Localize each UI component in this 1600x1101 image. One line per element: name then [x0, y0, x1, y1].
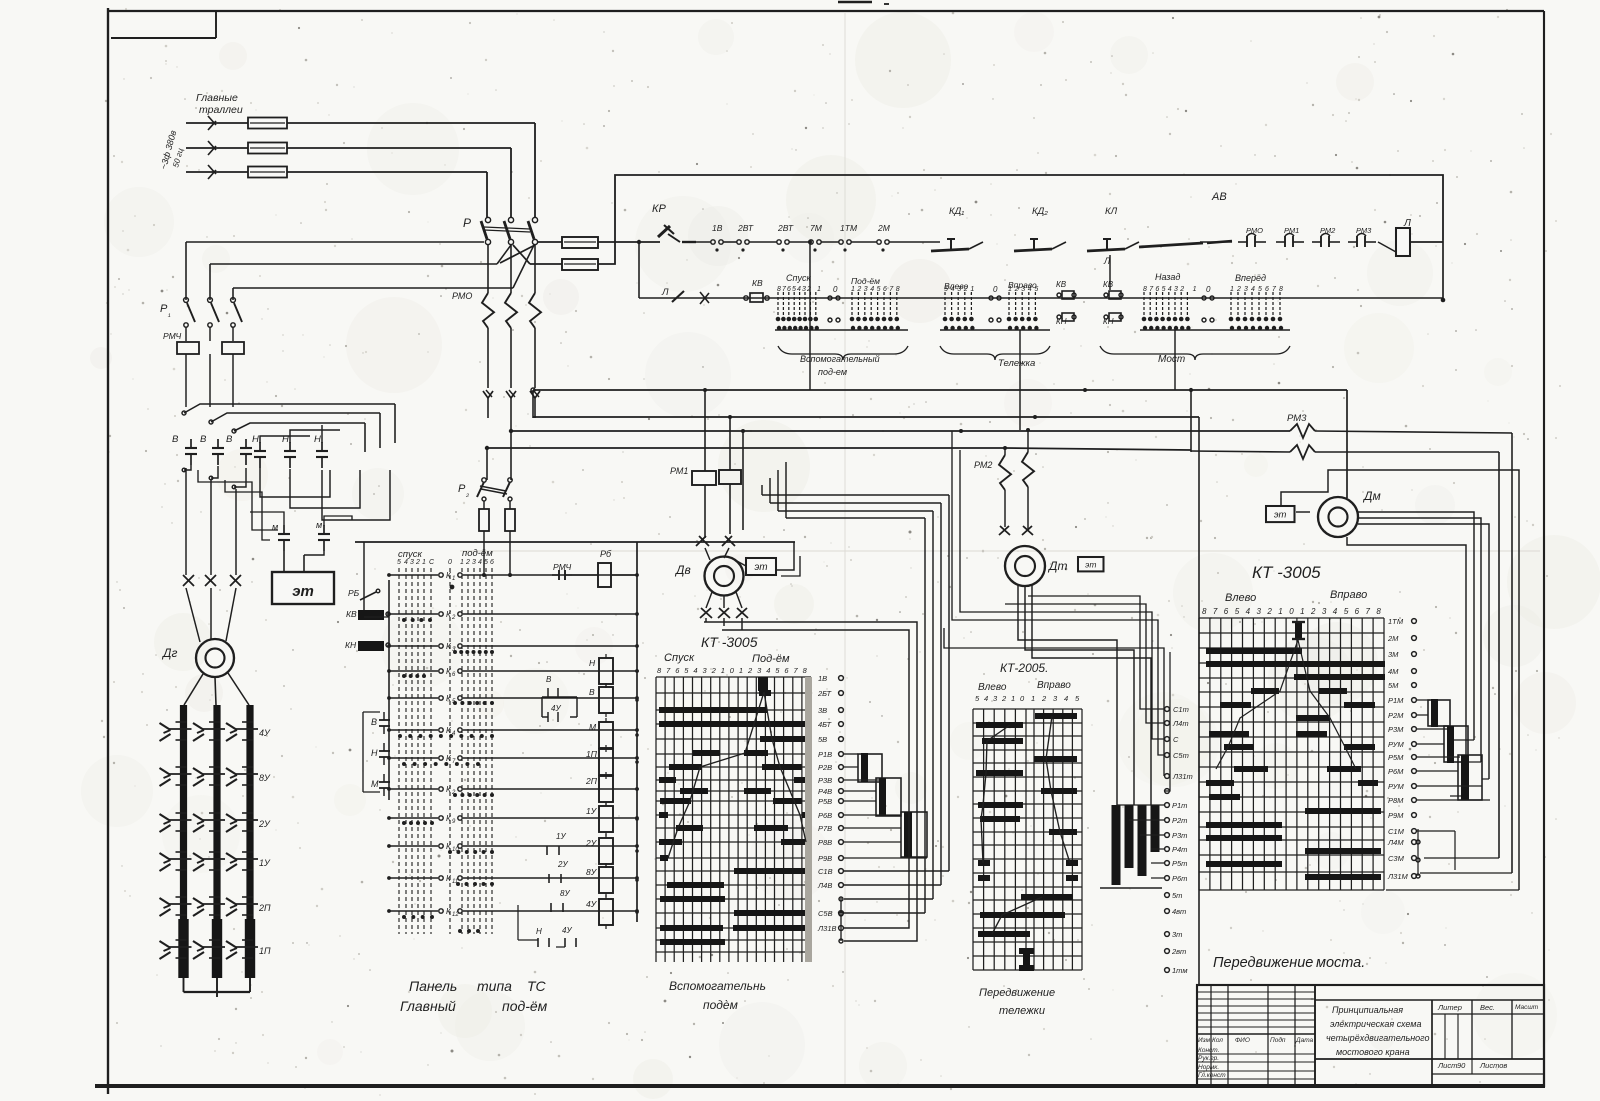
svg-text:под-ём: под-ём [502, 998, 548, 1014]
svg-text:эт: эт [292, 583, 314, 600]
svg-text:8: 8 [777, 286, 781, 293]
svg-text:6: 6 [787, 286, 791, 293]
svg-text:Р6В: Р6В [818, 811, 832, 820]
svg-text:0: 0 [1206, 285, 1211, 294]
svg-text:0: 0 [1289, 607, 1294, 616]
svg-text:Л: Л [661, 287, 669, 298]
svg-text:моста.: моста. [1316, 955, 1365, 971]
svg-text:типа: типа [477, 978, 512, 994]
svg-text:РМЧ: РМЧ [163, 331, 181, 341]
svg-text:Н: Н [589, 658, 596, 668]
svg-text:АВ: АВ [1211, 191, 1227, 203]
svg-text:1: 1 [739, 666, 743, 675]
svg-text:Р1В: Р1В [818, 750, 832, 759]
svg-text:Р4В: Р4В [818, 787, 832, 796]
svg-text:6: 6 [1155, 286, 1159, 293]
svg-text:6: 6 [1355, 607, 1360, 616]
svg-text:Р8М: Р8М [1388, 796, 1404, 805]
svg-text:3: 3 [1322, 607, 1327, 616]
svg-text:2ВТ: 2ВТ [777, 223, 794, 233]
svg-text:2У: 2У [557, 860, 568, 869]
svg-text:Вправо: Вправо [1330, 589, 1367, 601]
svg-text:4У: 4У [551, 704, 561, 713]
svg-text:2: 2 [1310, 607, 1316, 616]
svg-text:Конст.: Конст. [1198, 1047, 1220, 1054]
svg-text:1У: 1У [556, 832, 566, 841]
svg-text:Л31М: Л31М [1387, 872, 1408, 881]
svg-text:РМ2: РМ2 [974, 460, 992, 470]
svg-text:Мост: Мост [1158, 354, 1185, 365]
svg-text:1: 1 [1230, 286, 1234, 293]
svg-text:2: 2 [1179, 286, 1184, 293]
svg-text:4У: 4У [562, 926, 572, 935]
svg-text:Дв: Дв [674, 563, 691, 577]
svg-text:Вес.: Вес. [1480, 1003, 1495, 1012]
svg-text:Вправо: Вправо [1037, 680, 1071, 691]
svg-text:1: 1 [1193, 286, 1197, 293]
svg-text:В: В [200, 434, 207, 445]
svg-text:РМЧ: РМЧ [553, 562, 571, 572]
svg-text:7: 7 [1213, 607, 1218, 616]
svg-text:2БТ: 2БТ [817, 689, 833, 698]
svg-text:5: 5 [944, 286, 948, 293]
svg-text:4: 4 [1168, 286, 1172, 293]
svg-text:Р6т: Р6т [1172, 874, 1187, 883]
svg-text:КТ -3005: КТ -3005 [1252, 563, 1321, 582]
svg-text:Р3М: Р3М [1388, 725, 1404, 734]
svg-text:2: 2 [1014, 286, 1019, 293]
svg-text:Изм: Изм [1198, 1037, 1211, 1044]
svg-text:5: 5 [1235, 607, 1240, 616]
svg-text:1П: 1П [586, 749, 598, 759]
svg-text:5М: 5М [1388, 681, 1399, 690]
svg-text:Р1т: Р1т [1172, 801, 1187, 810]
svg-text:8У: 8У [259, 773, 271, 783]
svg-text:3: 3 [1174, 286, 1178, 293]
svg-text:3: 3 [410, 559, 414, 566]
svg-text:Передвижение: Передвижение [979, 987, 1055, 999]
svg-text:КТ-2005.: КТ-2005. [1000, 661, 1048, 675]
svg-text:Р9М: Р9М [1388, 811, 1404, 820]
svg-text:1: 1 [817, 286, 821, 293]
svg-text:Р6М: Р6М [1388, 767, 1404, 776]
svg-text:Р4т: Р4т [1172, 845, 1187, 854]
svg-text:6: 6 [490, 559, 494, 566]
svg-text:7М: 7М [810, 223, 823, 233]
svg-text:Дата: Дата [1295, 1037, 1314, 1044]
svg-text:Дг: Дг [161, 646, 177, 660]
svg-text:С1М: С1М [1388, 827, 1405, 836]
svg-text:3: 3 [957, 286, 961, 293]
svg-text:Передвижение: Передвижение [1213, 955, 1313, 971]
svg-text:Нормк.: Нормк. [1198, 1064, 1219, 1071]
svg-text:Н: Н [314, 434, 321, 445]
svg-text:2: 2 [1041, 694, 1047, 703]
svg-text:Р5В: Р5В [818, 797, 832, 806]
svg-text:2: 2 [856, 286, 861, 293]
svg-text:0: 0 [833, 285, 838, 294]
svg-text:₂: ₂ [465, 489, 469, 498]
svg-text:М: М [589, 722, 597, 732]
svg-text:В: В [589, 687, 595, 697]
svg-text:эт: эт [754, 562, 767, 573]
svg-text:КР: КР [652, 203, 666, 215]
svg-text:С5В: С5В [818, 909, 833, 918]
svg-text:2ВТ: 2ВТ [737, 223, 754, 233]
svg-text:90: 90 [1457, 1061, 1466, 1070]
svg-text:Вспомогательнь: Вспомогательнь [669, 979, 766, 993]
svg-text:1: 1 [422, 559, 426, 566]
svg-text:м: м [272, 522, 278, 532]
svg-text:5В: 5В [818, 735, 827, 744]
svg-text:3т: 3т [1172, 930, 1182, 939]
svg-text:1ТМ: 1ТМ [840, 223, 858, 233]
svg-text:1ТМ: 1ТМ [1388, 617, 1404, 626]
svg-text:Р5М: Р5М [1388, 753, 1404, 762]
svg-text:3: 3 [1257, 607, 1262, 616]
svg-text:Л31т: Л31т [1172, 772, 1193, 781]
svg-text:КН: КН [345, 640, 357, 650]
svg-text:электрическая схема: электрическая схема [1330, 1019, 1421, 1029]
svg-text:Н: Н [536, 927, 542, 936]
svg-text:В: В [172, 434, 179, 445]
svg-text:1: 1 [1300, 607, 1304, 616]
svg-text:Рук.гр.: Рук.гр. [1198, 1055, 1219, 1062]
svg-text:4: 4 [1064, 694, 1068, 703]
svg-text:Р: Р [458, 483, 466, 495]
svg-text:8У: 8У [560, 889, 570, 898]
svg-text:5: 5 [877, 286, 881, 293]
svg-text:2П: 2П [258, 903, 271, 913]
svg-text:3: 3 [1244, 286, 1248, 293]
svg-text:4У: 4У [259, 728, 271, 738]
svg-text:В: В [371, 717, 377, 727]
svg-text:ФИО: ФИО [1235, 1037, 1250, 1044]
svg-text:КВ: КВ [1103, 280, 1114, 289]
svg-text:четырёхдвигательного: четырёхдвигательного [1326, 1033, 1430, 1043]
svg-text:Под-ём: Под-ём [752, 653, 790, 665]
svg-text:Кол: Кол [1212, 1037, 1223, 1044]
svg-text:4: 4 [1333, 607, 1338, 616]
svg-text:8: 8 [1202, 607, 1207, 616]
svg-text:4: 4 [984, 694, 988, 703]
svg-text:Спуск: Спуск [664, 652, 695, 664]
svg-text:В: В [546, 675, 552, 684]
svg-text:2вт: 2вт [1171, 947, 1186, 956]
svg-text:1П: 1П [259, 946, 271, 956]
svg-text:КД₂: КД₂ [1032, 206, 1048, 217]
svg-text:Р1М: Р1М [1388, 696, 1404, 705]
svg-text:Главные: Главные [196, 92, 238, 104]
svg-text:Л4М: Л4М [1387, 838, 1404, 847]
svg-text:3М: 3М [1388, 650, 1399, 659]
svg-text:6: 6 [1265, 286, 1269, 293]
svg-text:С1В: С1В [818, 867, 833, 876]
svg-text:В: В [226, 434, 233, 445]
svg-text:2: 2 [711, 666, 717, 675]
svg-text:С: С [1173, 735, 1179, 744]
svg-text:КВ: КВ [1056, 280, 1067, 289]
svg-text:1: 1 [452, 576, 455, 582]
svg-text:2: 2 [465, 559, 470, 566]
svg-text:1: 1 [1278, 607, 1282, 616]
svg-text:1У: 1У [259, 858, 271, 868]
svg-text:КТ -3005: КТ -3005 [701, 634, 758, 650]
svg-text:1У: 1У [586, 806, 598, 816]
svg-text:М: М [371, 779, 379, 789]
svg-text:4: 4 [870, 286, 874, 293]
svg-text:4У: 4У [586, 899, 598, 909]
svg-text:м: м [316, 520, 322, 530]
svg-text:6: 6 [1224, 607, 1229, 616]
svg-text:КВ: КВ [752, 278, 763, 288]
svg-text:КД₁: КД₁ [949, 206, 964, 217]
svg-text:5: 5 [1162, 286, 1166, 293]
svg-text:Лист: Лист [1437, 1061, 1457, 1070]
svg-text:Р2т: Р2т [1172, 816, 1187, 825]
svg-text:Л4В: Л4В [817, 881, 832, 890]
svg-text:1: 1 [1011, 694, 1015, 703]
svg-text:3: 3 [802, 286, 806, 293]
svg-text:4вт: 4вт [1172, 907, 1186, 916]
svg-text:4: 4 [951, 286, 955, 293]
svg-text:5: 5 [1258, 286, 1262, 293]
svg-text:Р: Р [160, 303, 168, 315]
svg-text:2: 2 [963, 286, 968, 293]
svg-text:Принципиальная: Принципиальная [1332, 1005, 1403, 1015]
svg-text:2У: 2У [258, 819, 271, 829]
svg-text:4: 4 [693, 666, 697, 675]
svg-text:1: 1 [460, 559, 464, 566]
svg-text:Влево: Влево [978, 682, 1007, 693]
svg-text:2: 2 [1236, 286, 1241, 293]
svg-text:1В: 1В [712, 223, 723, 233]
svg-text:Листов: Листов [1479, 1061, 1507, 1070]
svg-text:2П: 2П [585, 776, 598, 786]
svg-text:Р3т: Р3т [1172, 831, 1187, 840]
svg-text:0: 0 [993, 285, 998, 294]
svg-text:С1т: С1т [1173, 705, 1189, 714]
svg-text:4БТ: 4БТ [818, 720, 833, 729]
svg-text:5т: 5т [1172, 891, 1182, 900]
svg-text:5: 5 [1344, 607, 1349, 616]
svg-text:4: 4 [1246, 607, 1251, 616]
svg-text:3: 3 [1021, 286, 1025, 293]
svg-text:5: 5 [1034, 286, 1038, 293]
svg-text:КВ: КВ [346, 609, 357, 619]
svg-text:1: 1 [970, 286, 974, 293]
svg-text:2: 2 [415, 559, 420, 566]
svg-text:мостового крана: мостового крана [1336, 1047, 1410, 1057]
svg-text:Главный: Главный [400, 998, 456, 1014]
svg-text:8: 8 [896, 286, 900, 293]
svg-text:Р8В: Р8В [818, 838, 832, 847]
svg-text:РМ1: РМ1 [670, 466, 688, 476]
svg-text:Литер: Литер [1437, 1003, 1462, 1012]
svg-text:Под-ём: Под-ём [851, 276, 880, 286]
svg-text:Масшт: Масшт [1515, 1004, 1539, 1011]
svg-text:0: 0 [448, 559, 452, 566]
svg-text:Дт: Дт [1047, 559, 1067, 573]
svg-text:Л31В: Л31В [817, 924, 837, 933]
svg-text:4: 4 [1251, 286, 1255, 293]
svg-text:2У: 2У [585, 838, 598, 848]
svg-text:2: 2 [1266, 607, 1272, 616]
svg-text:1: 1 [1031, 694, 1035, 703]
svg-text:8У: 8У [586, 867, 598, 877]
svg-text:1тм: 1тм [1172, 966, 1187, 975]
svg-text:Р9В: Р9В [818, 854, 832, 863]
svg-text:под-ём: под-ём [462, 548, 493, 559]
svg-text:РУМ: РУМ [1388, 782, 1404, 791]
svg-text:Н: Н [252, 434, 259, 445]
svg-text:под-ем: под-ем [818, 367, 847, 377]
svg-text:Тележка: Тележка [998, 358, 1035, 369]
svg-text:С5т: С5т [1173, 751, 1189, 760]
svg-text:2: 2 [747, 666, 753, 675]
svg-text:РМ3: РМ3 [1287, 413, 1307, 424]
svg-text:Рб: Рб [600, 549, 612, 559]
svg-text:1: 1 [851, 286, 855, 293]
svg-text:траллеи: траллеи [199, 104, 243, 116]
svg-text:РМО: РМО [452, 291, 472, 301]
svg-text:₁: ₁ [167, 309, 171, 318]
svg-text:3: 3 [472, 559, 476, 566]
svg-text:Вспомогательный: Вспомогательный [800, 354, 880, 364]
svg-text:7: 7 [1366, 607, 1371, 616]
svg-text:3: 3 [864, 286, 868, 293]
svg-text:Р7В: Р7В [818, 824, 832, 833]
svg-text:КЛ: КЛ [1105, 206, 1118, 217]
svg-text:5: 5 [792, 286, 796, 293]
svg-text:1: 1 [1008, 286, 1012, 293]
svg-text:4: 4 [797, 286, 801, 293]
svg-text:4М: 4М [1388, 667, 1399, 676]
svg-text:Панель: Панель [409, 978, 457, 994]
svg-text:4: 4 [766, 666, 770, 675]
svg-text:6: 6 [883, 286, 887, 293]
svg-text:1В: 1В [818, 674, 827, 683]
svg-text:4: 4 [404, 559, 408, 566]
svg-text:8: 8 [1143, 286, 1147, 293]
svg-text:2М: 2М [1387, 634, 1399, 643]
svg-text:Н: Н [371, 748, 378, 758]
svg-text:Влево: Влево [1225, 592, 1256, 604]
svg-text:тележки: тележки [999, 1005, 1045, 1017]
svg-text:2: 2 [451, 615, 456, 621]
svg-text:Спуск: Спуск [786, 273, 811, 283]
svg-text:1: 1 [721, 666, 725, 675]
svg-text:Р: Р [463, 216, 471, 230]
svg-text:8: 8 [1279, 286, 1283, 293]
svg-text:4: 4 [1028, 286, 1032, 293]
svg-text:РУМ: РУМ [1388, 740, 1404, 749]
svg-text:Подп: Подп [1270, 1036, 1286, 1044]
svg-text:С3М: С3М [1388, 854, 1405, 863]
svg-text:РБ: РБ [348, 588, 360, 598]
svg-text:2: 2 [1001, 694, 1007, 703]
svg-text:Вперёд: Вперёд [1235, 273, 1266, 283]
svg-text:5: 5 [397, 559, 401, 566]
svg-text:Р2М: Р2М [1388, 711, 1404, 720]
svg-text:Р2В: Р2В [818, 763, 832, 772]
svg-text:эт: эт [1085, 559, 1096, 569]
svg-text:4: 4 [478, 559, 482, 566]
svg-text:ТС: ТС [527, 978, 547, 994]
svg-text:Л4т: Л4т [1172, 719, 1189, 728]
svg-text:Р5т: Р5т [1172, 859, 1187, 868]
svg-text:Гл.конст: Гл.конст [1198, 1072, 1226, 1079]
svg-text:эт: эт [1274, 510, 1287, 521]
svg-text:подѐм: подѐм [703, 998, 738, 1012]
svg-text:8: 8 [1376, 607, 1381, 616]
svg-text:Дм: Дм [1362, 489, 1381, 503]
svg-text:2М: 2М [877, 223, 891, 233]
svg-text:Р3В: Р3В [818, 776, 832, 785]
svg-text:Назад: Назад [1155, 272, 1180, 282]
svg-text:3В: 3В [818, 706, 827, 715]
